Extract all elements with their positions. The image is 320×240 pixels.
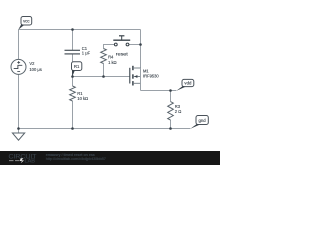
label R4 value [108,54,117,64]
junction switch right [139,43,142,46]
wire C1 top stem [72,30,74,51]
wire R1 top stem [72,77,74,87]
svg-text:V2: V2 [29,61,35,66]
svg-text:1 μF: 1 μF [82,50,91,55]
svg-text:2 Ω: 2 Ω [175,109,181,114]
junction bottom left [17,127,20,130]
wire R3 top stem [170,91,172,102]
wire C1 bottom stem [72,54,74,77]
wire ground stem [18,129,20,134]
wire drain stem [140,83,142,90]
svg-text:vcc: vcc [23,19,30,24]
wire R4 bottom stem [103,64,105,77]
label M1 value [143,69,159,79]
ground [12,133,24,140]
svg-text:LAB: LAB [25,158,36,164]
wire R1 bottom stem [72,101,74,129]
label R1 value [77,91,88,101]
switch reset pushbutton [113,36,130,46]
wire left rail lower [18,74,20,128]
resistor R4 [101,49,107,64]
wire R3 bottom stem [170,120,172,129]
wire left rail upper [18,30,20,60]
wire middle gate rail [73,76,130,78]
wire vdd rail [141,90,177,92]
wire switch to right rail [129,44,141,46]
svg-text:1 kΩ: 1 kΩ [108,60,117,65]
junction gate node [71,75,74,78]
svg-text:R1: R1 [74,64,80,69]
junction R3 top [169,89,172,92]
svg-text:IRF9530: IRF9530 [143,73,159,78]
mosfet M1 [130,66,141,86]
node vdd flag [176,79,194,91]
svg-text:100 μs: 100 μs [29,67,41,72]
node R1 flag [72,62,82,77]
watermark banner [0,151,220,165]
wire top rail [19,29,141,31]
label C1 value [82,46,91,56]
resistor R3 [168,102,174,120]
svg-text:http://circuitlab.com/c/bdjpk4: http://circuitlab.com/c/bdjpk435bb87 [46,157,106,161]
label V2 value [29,61,41,72]
svg-text:R4: R4 [108,54,114,59]
wire right rail [140,30,142,69]
svg-text:reset: reset [116,51,129,56]
svg-text:10 kΩ: 10 kΩ [77,96,88,101]
junction R4 bottom [102,75,105,78]
voltage source V2 [11,59,26,74]
resistor R1 [70,86,76,101]
wire bottom rail [19,128,191,130]
wire R4 top corner [104,45,115,49]
svg-text:gnd: gnd [199,118,207,123]
junction R3 bottom [169,127,172,130]
node gnd flag [190,116,208,129]
label R3 value [175,104,181,114]
capacitor C1 [65,50,81,54]
label reset [116,51,129,56]
junction R1 bottom [71,127,74,130]
node vcc flag [18,17,32,30]
junction C1 top [71,28,74,31]
svg-text:vdd: vdd [184,81,192,86]
